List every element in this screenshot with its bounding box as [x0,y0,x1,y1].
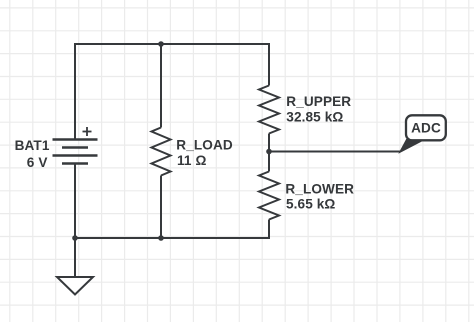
svg-text:R_UPPER: R_UPPER [286,94,351,109]
node junction dot: divider midpoint (ADC node) [266,149,272,155]
wire battery negative terminal down to bottom rail [74,164,76,239]
wire R_LOAD bottom lead to bottom rail [160,176,162,239]
node ADC flag [400,115,446,152]
svg-text:5.65 kΩ: 5.65 kΩ [286,197,335,212]
ADC flag tail [400,140,425,153]
battery BAT1 6 V [15,127,98,170]
svg-text:ADC: ADC [411,121,441,136]
battery short plate [62,146,88,148]
node junction dot: bottom rail / R_LOAD [158,235,164,241]
svg-text:6 V: 6 V [27,155,48,170]
resistor R_LOAD 11 ohm [152,128,233,176]
battery long plate (positive) [53,138,98,140]
node junction dot: bottom-left / ground [72,235,78,241]
node junction dot: top rail / R_LOAD [158,41,164,47]
wire from battery positive terminal up and along top rail to R_UPPER top lead [75,44,269,140]
svg-text:R_LOAD: R_LOAD [176,137,233,152]
ground symbol [57,277,93,295]
svg-text:BAT1: BAT1 [15,138,50,153]
battery short plate (negative) [62,162,88,164]
svg-text:32.85 kΩ: 32.85 kΩ [286,110,343,125]
wire ground stem below bottom-left junction [74,238,76,277]
ADC flag body [406,115,446,140]
resistor R_UPPER 32.85 kohm [259,86,351,134]
svg-text:11 Ω: 11 Ω [177,153,206,168]
wire divider midpoint vertical between R_UPPER and R_LOWER [268,134,270,172]
resistor R_LOWER 5.65 kohm [259,172,354,220]
battery long plate [53,154,98,156]
battery plus sign [83,127,92,136]
wire from divider midpoint junction to ADC flag [269,151,400,153]
svg-text:R_LOWER: R_LOWER [285,182,354,197]
wire bottom rail up to R_LOWER bottom lead [75,220,269,239]
wire R_LOAD top lead from top rail junction [160,44,162,128]
